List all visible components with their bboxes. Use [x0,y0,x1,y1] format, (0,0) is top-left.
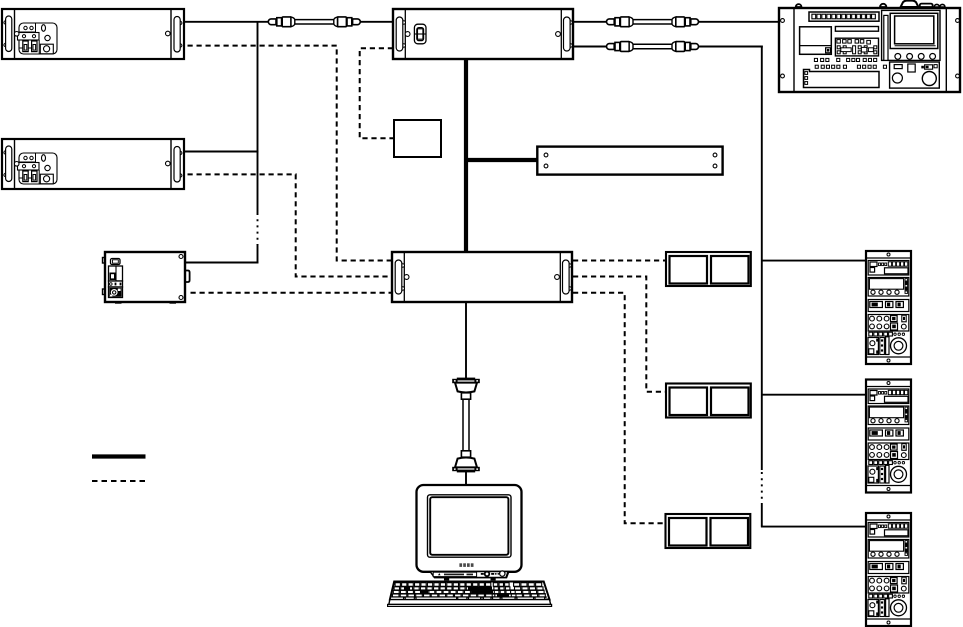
device: VTR 1 [866,251,911,364]
wire: dashed control A to G [188,46,393,261]
device: editing control unit A (top left rack) [2,9,184,59]
wire: G to computer monitor cable [465,302,467,486]
device: computer CRT monitor [417,485,522,580]
cable: monitor cable upper D-sub plug [452,378,480,400]
wire: processor D to VTR feed bus [573,46,763,48]
cable: BNC coax D-VTR bus [607,42,699,52]
device: reference box E [394,120,441,157]
wire: bus branch to VTR 2 [762,394,866,396]
legend: solid line sample [92,454,146,458]
device: VTR 2 [866,380,911,493]
wire: dashed G to monitor pair M1 [573,260,666,262]
wire: unit C to vertical bus [184,262,258,264]
device: VTR 3 [866,513,911,626]
cable: BNC coax D-panel [607,17,699,27]
wire: dashed G to monitor pair M3 [573,293,666,524]
wire: dashed control D to reference box E [360,48,395,138]
wire: vertical VTR bus at x=761.8 [761,46,866,527]
wire: unit B to vertical bus [184,151,258,153]
wire: thick branch to distribution unit F [464,158,538,162]
device: computer keyboard [388,582,552,607]
device: monitor pair M3 [666,514,751,548]
wire: bus branch to VTR 1 [762,260,866,262]
cable: monitor cable lower D-sub plug [452,451,480,473]
device: distribution amplifier F [537,147,722,175]
cable: BNC coax A-D [268,17,360,27]
device: signal processor D (top center rack) [393,9,573,59]
device: monitor pair M1 [666,252,751,286]
cable: monitor cable shaft [463,399,469,451]
wire: processor D to control panel (video) [573,21,779,23]
wire: dashed control C to G [191,292,393,294]
legend: dashed line sample [92,480,146,482]
device: editing control unit B (left rack 2) [2,139,184,189]
wire: vertical bus at x=257.5 linking A, B, C [257,22,259,264]
wire: dashed G to monitor pair M2 [573,277,666,392]
device: interface unit C (small box) [103,252,190,304]
device: control panel (top right) [779,1,960,92]
wire: switcher A to processor D (video) [184,21,393,23]
device: routing unit G (center rack) [392,252,572,302]
wire: thick program bus D to G [464,59,468,252]
wire: dashed control B to G [188,174,393,276]
device: monitor pair M2 [666,384,751,418]
